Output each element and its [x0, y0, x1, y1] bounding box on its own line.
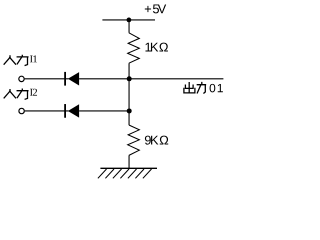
resistor R2 zigzag — [128, 125, 140, 155]
label 入力I1: glyph 入 — [4, 56, 16, 64]
label 9KΩ — [145, 136, 168, 145]
wire: vertical bus from R1 through node A to node B — [128, 63, 130, 125]
wire: diode D1 to node A — [79, 78, 129, 80]
label I1 (input 1 designator) — [30, 55, 37, 62]
ground hatch 1 — [98, 169, 107, 178]
wire: diode D2 to node B — [79, 110, 129, 112]
label 出力01: glyph 出 — [184, 83, 195, 93]
ground hatch 5 — [128, 169, 137, 178]
diode D1 triangle — [68, 72, 79, 85]
label 1KΩ — [145, 43, 167, 52]
ground hatch 6 — [135, 169, 144, 178]
node A junction dot — [127, 76, 132, 81]
label I2 (input 2 designator) — [30, 89, 37, 96]
label 01 (output designator) — [210, 84, 223, 92]
node B junction dot — [127, 108, 132, 113]
wire: input 2 to diode D2 — [25, 110, 69, 112]
label 入力I2: glyph 力 — [17, 89, 28, 99]
node: junction dot on +5V rail — [126, 18, 131, 23]
ground hatch 4 — [120, 169, 129, 178]
wire: input 1 to diode D1 — [25, 78, 69, 80]
label 入力I1: glyph 力 — [17, 55, 28, 65]
ground hatch 2 — [105, 169, 114, 178]
resistor R1 zigzag — [128, 33, 140, 63]
wire: output line — [129, 78, 223, 80]
ground hatch 3 — [113, 169, 122, 178]
terminal circle input 1 — [19, 76, 24, 81]
diode D1 cathode bar — [64, 72, 66, 86]
diode D2 triangle — [68, 104, 79, 117]
label 入力I2: glyph 入 — [4, 90, 16, 98]
wire: R2 to ground — [128, 155, 130, 168]
label +5V — [145, 4, 166, 13]
ground hatch 7 — [143, 169, 152, 178]
terminal circle input 2 — [19, 108, 24, 113]
diode D2 cathode bar — [64, 104, 66, 118]
wire: lead from rail to R1 — [128, 20, 130, 33]
ground bar — [100, 167, 157, 169]
wire: +5V top rail — [102, 19, 155, 21]
label 出力01: glyph 力 — [197, 83, 205, 94]
